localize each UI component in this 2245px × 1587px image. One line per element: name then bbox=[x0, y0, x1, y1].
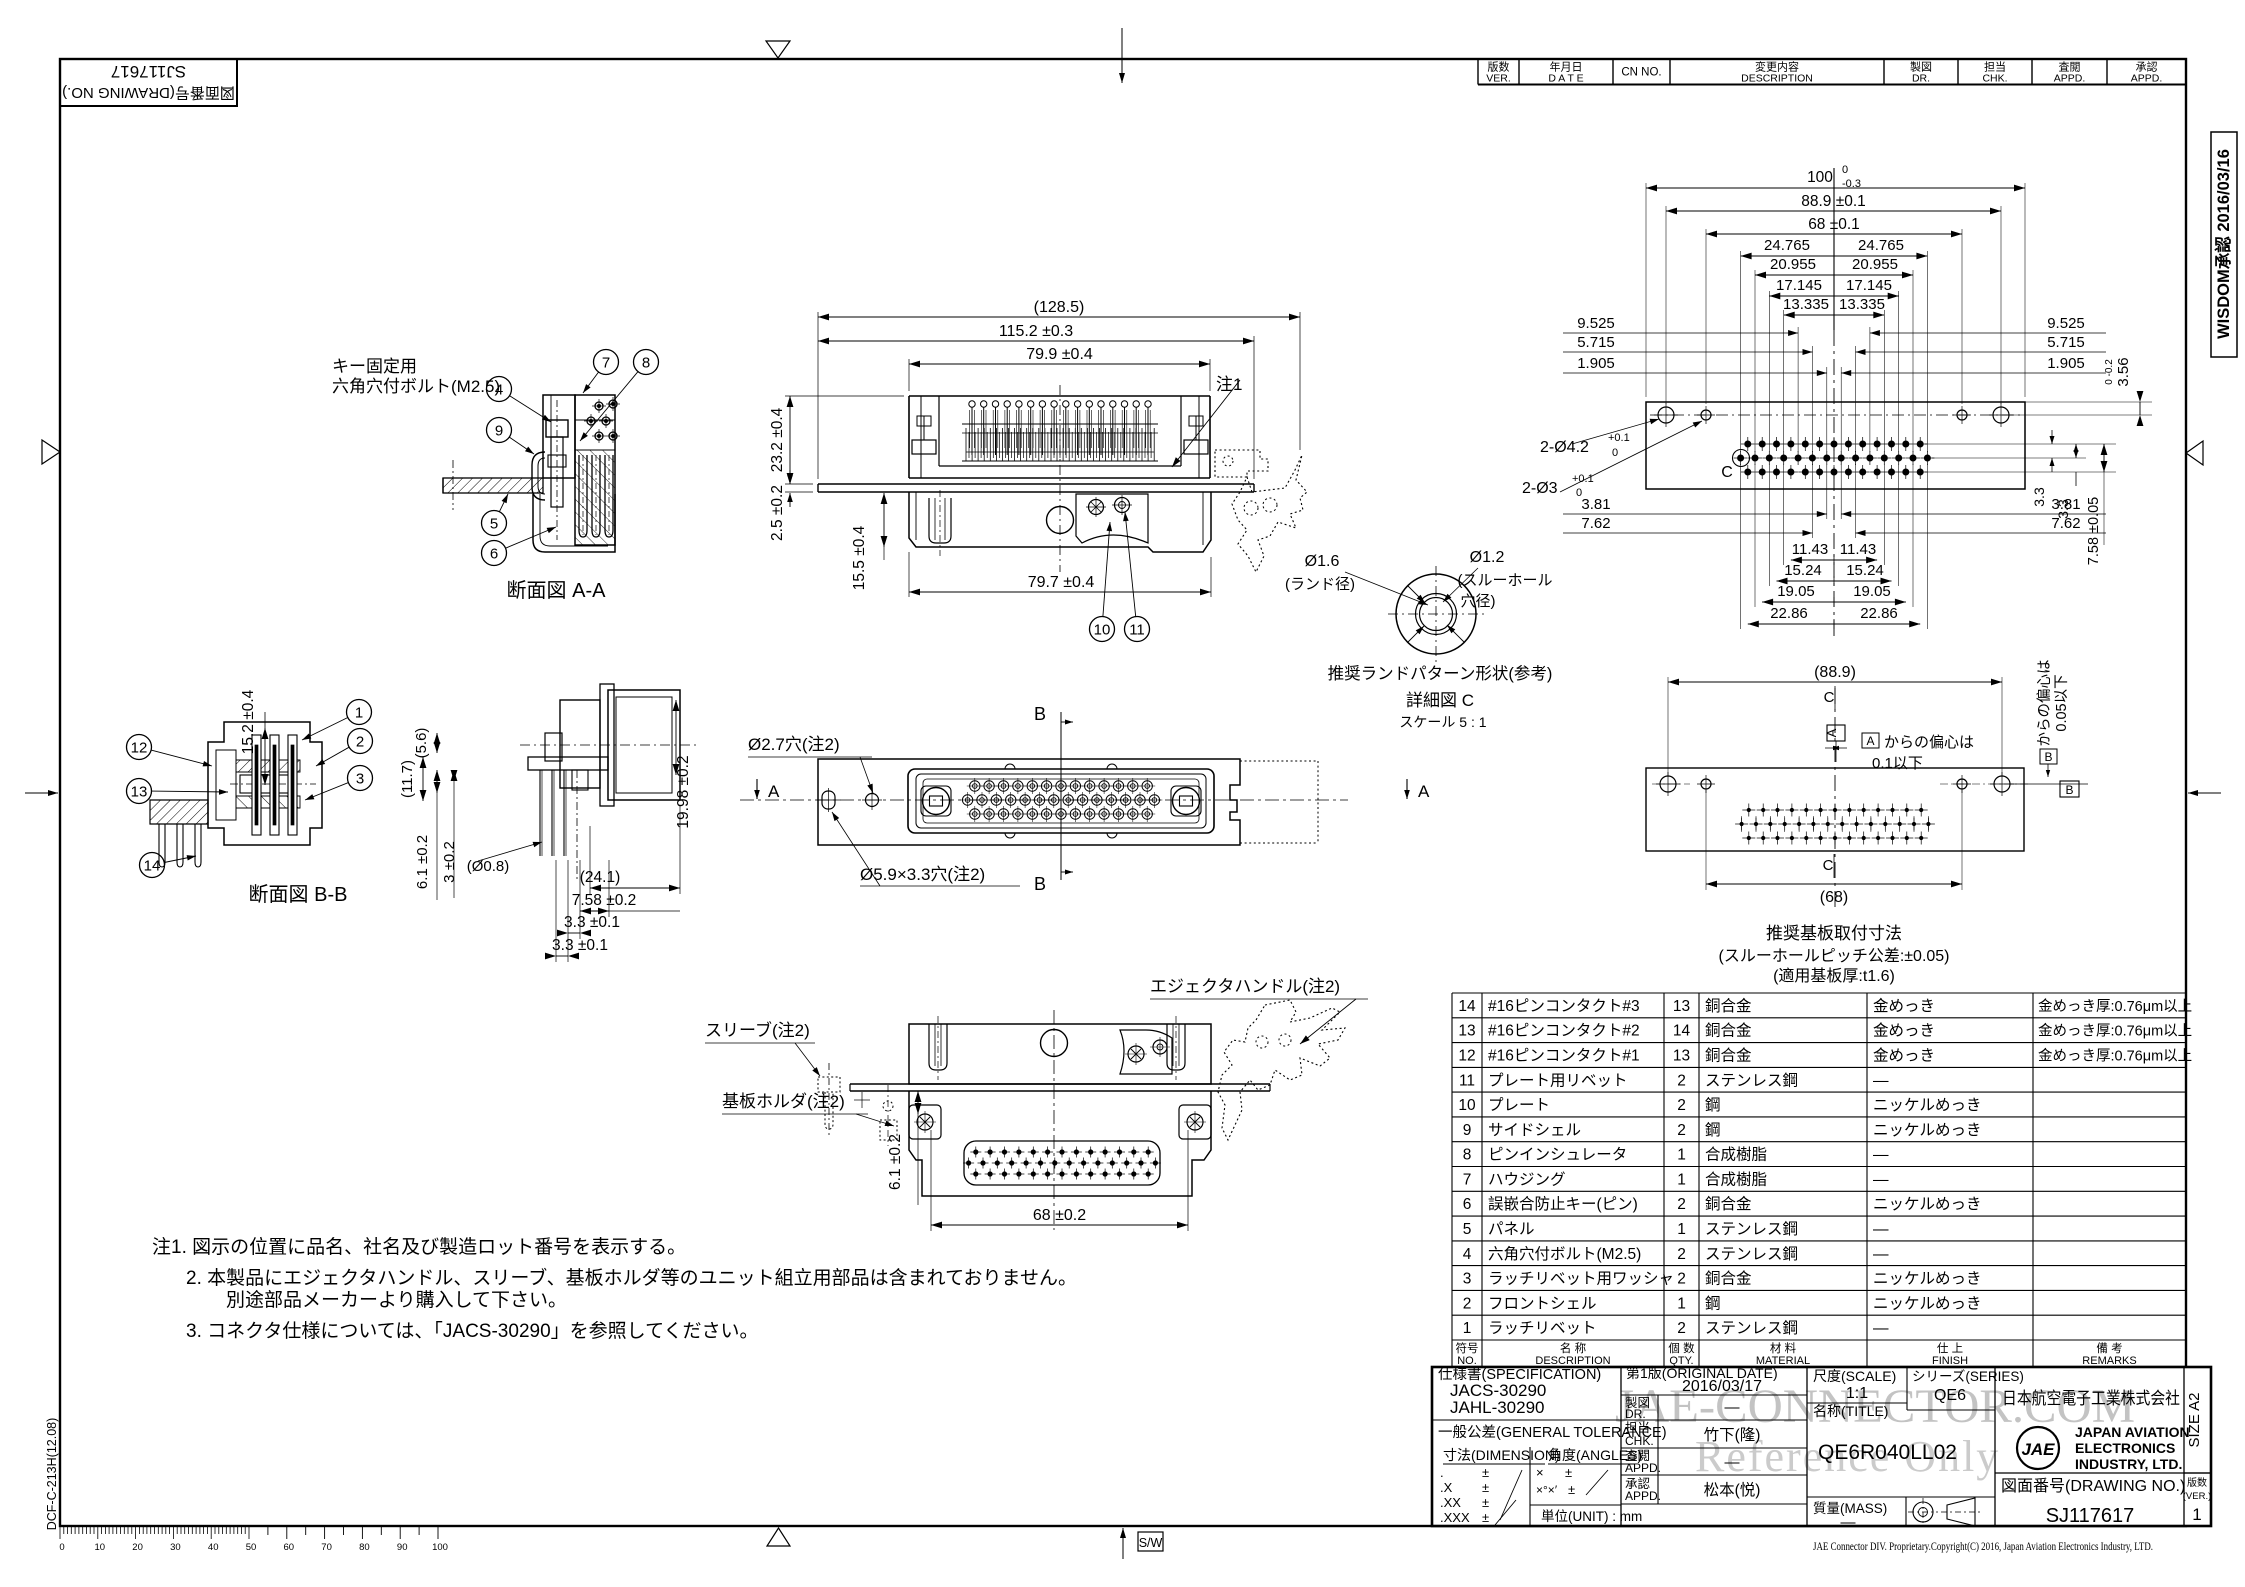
dimension (128.5) bbox=[818, 299, 1300, 479]
svg-text:断面図 B-B: 断面図 B-B bbox=[249, 883, 348, 906]
svg-text:承認: 承認 bbox=[2136, 60, 2158, 74]
svg-text:銅合金: 銅合金 bbox=[1705, 1270, 1752, 1288]
svg-text:1: 1 bbox=[1677, 1147, 1686, 1164]
dimension phi0.8 bbox=[467, 842, 542, 875]
svg-text:1: 1 bbox=[1677, 1171, 1686, 1188]
svg-text:FINISH: FINISH bbox=[1932, 1355, 1968, 1367]
svg-text:竹下(隆): 竹下(隆) bbox=[1704, 1426, 1761, 1444]
board mounting contacts bbox=[1735, 804, 1935, 845]
dimension 23.2 bbox=[769, 396, 904, 484]
svg-text:1.905: 1.905 bbox=[1577, 355, 1615, 372]
svg-text:0 -0.2: 0 -0.2 bbox=[2104, 359, 2115, 385]
svg-text:(スルーホールピッチ公差:±0.05): (スルーホールピッチ公差:±0.05) bbox=[1718, 947, 1949, 965]
svg-text:—: — bbox=[1873, 1246, 1889, 1263]
svg-text:(適用基板厚:t1.6): (適用基板厚:t1.6) bbox=[1773, 967, 1895, 985]
svg-text:2: 2 bbox=[1677, 1271, 1686, 1288]
svg-text:図面番号(DRAWING NO.): 図面番号(DRAWING NO.) bbox=[2001, 1477, 2185, 1495]
svg-text:0: 0 bbox=[1576, 487, 1582, 499]
svg-text:基板ホルダ(注2): 基板ホルダ(注2) bbox=[722, 1092, 845, 1111]
svg-text:JAE: JAE bbox=[2021, 1440, 2055, 1459]
pcb pattern centerline bbox=[1833, 168, 1835, 640]
svg-text:REMARKS: REMARKS bbox=[2082, 1355, 2136, 1367]
plan view panel bbox=[740, 759, 1348, 845]
svg-text:C: C bbox=[1824, 689, 1835, 706]
balloon 9 bbox=[487, 418, 535, 455]
svg-text:30: 30 bbox=[170, 1542, 181, 1553]
svg-text:1: 1 bbox=[355, 705, 363, 722]
section A-A view bbox=[332, 357, 620, 552]
svg-text:ピンインシュレータ: ピンインシュレータ bbox=[1488, 1146, 1627, 1164]
svg-text:JAE Connector DIV. Proprietary: JAE Connector DIV. Proprietary.Copyright… bbox=[1813, 1541, 2153, 1553]
svg-text:VER.: VER. bbox=[1486, 73, 1511, 85]
title block date and approvals bbox=[1625, 1365, 1778, 1503]
datum A annotation bbox=[1862, 733, 1974, 772]
svg-text:注1. 図示の位置に品名、社名及び製造ロット番号を表示する。: 注1. 図示の位置に品名、社名及び製造ロット番号を表示する。 bbox=[152, 1236, 686, 1258]
caption land pattern bbox=[1328, 664, 1553, 730]
svg-text:×: × bbox=[1536, 1465, 1544, 1480]
svg-text:15.24: 15.24 bbox=[1846, 562, 1884, 579]
svg-text:シリーズ(SERIES): シリーズ(SERIES) bbox=[1912, 1369, 2024, 1384]
svg-text:0: 0 bbox=[59, 1542, 64, 1553]
svg-text:±: ± bbox=[1482, 1495, 1489, 1510]
svg-text:変更内容: 変更内容 bbox=[1755, 60, 1799, 74]
dimension 20.955 pair bbox=[1755, 256, 1913, 280]
svg-text:金めっき: 金めっき bbox=[1873, 1022, 1935, 1040]
bottom view PCB bbox=[850, 1084, 1270, 1091]
svg-text:Ø2.7穴(注2): Ø2.7穴(注2) bbox=[748, 735, 840, 754]
svg-text:100: 100 bbox=[1807, 169, 1833, 186]
svg-text:WISDOM承認 2016/03/16: WISDOM承認 2016/03/16 bbox=[2213, 149, 2233, 339]
svg-text:×°×′: ×°×′ bbox=[1536, 1483, 1558, 1497]
svg-text:4: 4 bbox=[495, 382, 503, 399]
svg-text:2: 2 bbox=[356, 734, 364, 751]
svg-text:3.3: 3.3 bbox=[2055, 499, 2071, 519]
registration mark triangle left bbox=[42, 440, 60, 464]
svg-text:備 考: 備 考 bbox=[2096, 1341, 2122, 1355]
svg-text:B: B bbox=[1034, 874, 1046, 894]
svg-text:8: 8 bbox=[1463, 1147, 1472, 1164]
section B-B view bbox=[150, 722, 322, 867]
svg-text:12: 12 bbox=[1458, 1048, 1475, 1065]
svg-text:+0.1: +0.1 bbox=[1572, 473, 1594, 485]
svg-text:5.715: 5.715 bbox=[2047, 334, 2085, 351]
pcb pattern extension lines bbox=[1646, 183, 2025, 629]
dimension (68) mounting bbox=[1706, 790, 1962, 906]
title block tolerance cell bbox=[1438, 1424, 1667, 1525]
svg-text:9: 9 bbox=[495, 423, 503, 440]
svg-text:APPD.: APPD. bbox=[2054, 73, 2086, 85]
dimension 24.765 pair bbox=[1741, 237, 1928, 261]
svg-text:Ø1.6: Ø1.6 bbox=[1305, 553, 1340, 570]
title block drawing number bbox=[2001, 1476, 2211, 1527]
registration arrow left bbox=[25, 790, 58, 796]
svg-text:合成樹脂: 合成樹脂 bbox=[1705, 1146, 1767, 1164]
board mounting panel bbox=[1646, 688, 2024, 908]
svg-text:5: 5 bbox=[1463, 1221, 1472, 1238]
svg-text:断面図 A-A: 断面図 A-A bbox=[507, 579, 607, 602]
svg-text:B: B bbox=[1034, 704, 1046, 724]
svg-text:3.56: 3.56 bbox=[2115, 357, 2132, 386]
svg-text:11: 11 bbox=[1459, 1072, 1475, 1089]
dimension (24.1) bbox=[580, 806, 680, 894]
registration mark triangle top bbox=[766, 41, 790, 58]
scale ruler bottom left bbox=[59, 1526, 448, 1553]
svg-text:(VER.): (VER.) bbox=[2183, 1491, 2212, 1502]
svg-text:3: 3 bbox=[356, 771, 364, 788]
board holder dotted with label bbox=[722, 1085, 897, 1146]
svg-text:80: 80 bbox=[359, 1542, 370, 1553]
section line B-B bbox=[1034, 704, 1073, 894]
svg-text:ハウジング: ハウジング bbox=[1488, 1170, 1566, 1188]
svg-text:20.955: 20.955 bbox=[1770, 256, 1816, 273]
svg-text:詳細図 C: 詳細図 C bbox=[1406, 691, 1474, 710]
dimension 9.525 lines bbox=[1563, 315, 2106, 336]
svg-text:ラッチリベット: ラッチリベット bbox=[1488, 1320, 1597, 1337]
svg-text:からの偏心は: からの偏心は bbox=[2036, 660, 2053, 747]
svg-text:CHK.: CHK. bbox=[1625, 1434, 1654, 1448]
svg-text:B: B bbox=[2044, 750, 2052, 764]
svg-text:1: 1 bbox=[1677, 1295, 1686, 1312]
svg-text:3.3 ±0.1: 3.3 ±0.1 bbox=[552, 937, 608, 954]
svg-text:金めっき厚:0.76μm以上: 金めっき厚:0.76μm以上 bbox=[2038, 998, 2192, 1015]
bottom view lower body bbox=[909, 1091, 1211, 1196]
svg-text:3: 3 bbox=[1463, 1271, 1472, 1288]
label phi1.6 land bbox=[1285, 553, 1428, 605]
revision table header bbox=[1478, 59, 2186, 85]
svg-text:100: 100 bbox=[432, 1542, 448, 1553]
pcb pattern panel bbox=[1646, 402, 2025, 489]
svg-text:0: 0 bbox=[1612, 447, 1618, 459]
svg-text:20.955: 20.955 bbox=[1852, 256, 1898, 273]
svg-text:—: — bbox=[1725, 1454, 1740, 1471]
svg-text:2: 2 bbox=[1677, 1097, 1686, 1114]
svg-text:推奨基板取付寸法: 推奨基板取付寸法 bbox=[1766, 924, 1902, 943]
dimension (5.6) bbox=[413, 728, 440, 759]
svg-text:11.43: 11.43 bbox=[1792, 541, 1828, 558]
svg-text:±: ± bbox=[1482, 1465, 1489, 1480]
svg-text:2. 本製品にエジェクタハンドル、スリーブ、基板ホルダ等のユ: 2. 本製品にエジェクタハンドル、スリーブ、基板ホルダ等のユニット組立用部品は含… bbox=[186, 1266, 1077, 1289]
svg-text:スリーブ(注2): スリーブ(注2) bbox=[705, 1020, 810, 1040]
svg-text:仕 上: 仕 上 bbox=[1937, 1342, 1963, 1355]
svg-text:JAHL-30290: JAHL-30290 bbox=[1450, 1398, 1545, 1417]
svg-text:11: 11 bbox=[1129, 622, 1145, 639]
svg-text:3. コネクタ仕様については、「JACS-30290」を参照: 3. コネクタ仕様については、「JACS-30290」を参照してください。 bbox=[186, 1320, 759, 1342]
svg-text:10: 10 bbox=[1458, 1097, 1476, 1114]
dimension 22.86 pair bbox=[1748, 605, 1920, 629]
plan view dotted extension bbox=[1240, 761, 1318, 843]
label 2-phi3 bbox=[1522, 421, 1702, 499]
svg-text:SIZE A2: SIZE A2 bbox=[2186, 1392, 2203, 1447]
svg-text:6: 6 bbox=[1463, 1196, 1472, 1213]
svg-text:15.5 ±0.4: 15.5 ±0.4 bbox=[851, 525, 868, 590]
svg-text:-0.3: -0.3 bbox=[1842, 178, 1861, 190]
svg-text:穴径): 穴径) bbox=[1461, 593, 1496, 610]
projection symbol bbox=[1908, 1498, 1981, 1526]
caption board mounting bbox=[1718, 924, 1949, 985]
svg-text:+0.1: +0.1 bbox=[1608, 432, 1630, 444]
svg-text:(88.9): (88.9) bbox=[1814, 664, 1856, 681]
svg-text:—: — bbox=[1873, 1221, 1889, 1238]
dimension 68 bbox=[931, 1130, 1188, 1231]
plan view connector body bbox=[908, 764, 1214, 838]
svg-text:ステンレス鋼: ステンレス鋼 bbox=[1705, 1319, 1798, 1337]
balloon 7 bbox=[583, 350, 619, 394]
svg-text:S/W: S/W bbox=[1139, 1536, 1163, 1550]
dimension 3.56 right bbox=[2009, 357, 2152, 426]
svg-text:2: 2 bbox=[1677, 1122, 1686, 1139]
svg-text:材 料: 材 料 bbox=[1770, 1341, 1797, 1355]
section arrow A right bbox=[1404, 779, 1430, 801]
svg-text:図面番号(DRAWING NO.): 図面番号(DRAWING NO.) bbox=[62, 84, 235, 101]
svg-text:金めっき: 金めっき bbox=[1873, 997, 1935, 1015]
svg-text:CHK.: CHK. bbox=[1982, 73, 2007, 85]
JAE logo bbox=[2017, 1427, 2059, 1469]
detail C land pattern bbox=[1388, 566, 1484, 662]
svg-text:3.3: 3.3 bbox=[2031, 487, 2047, 507]
svg-text:名称(TITLE): 名称(TITLE) bbox=[1813, 1403, 1888, 1419]
svg-text:鋼: 鋼 bbox=[1705, 1121, 1721, 1139]
svg-text:7: 7 bbox=[1463, 1171, 1472, 1188]
svg-text:パネル: パネル bbox=[1488, 1220, 1535, 1238]
dimension 19.98 bbox=[673, 700, 692, 829]
svg-text:INDUSTRY, LTD.: INDUSTRY, LTD. bbox=[2075, 1456, 2182, 1472]
section arrow A left bbox=[754, 779, 780, 801]
svg-text:14: 14 bbox=[1458, 998, 1476, 1015]
WISDOM approval stamp (rotated) bbox=[2211, 132, 2237, 357]
svg-text:からの偏心は: からの偏心は bbox=[1884, 734, 1974, 751]
svg-text:APPD.: APPD. bbox=[1625, 1461, 1661, 1475]
svg-text:13: 13 bbox=[1673, 1048, 1690, 1065]
dimension 79.9 bbox=[909, 346, 1210, 391]
svg-text:プレート用リベット: プレート用リベット bbox=[1488, 1071, 1628, 1089]
svg-text:1:1: 1:1 bbox=[1846, 1385, 1868, 1402]
balloon 4 bbox=[487, 377, 552, 423]
svg-text:79.7 ±0.4: 79.7 ±0.4 bbox=[1028, 574, 1095, 591]
title block outer bbox=[1432, 1367, 2211, 1526]
svg-text:2.5 ±0.2: 2.5 ±0.2 bbox=[769, 485, 786, 541]
svg-text:寸法(DIMENSION): 寸法(DIMENSION) bbox=[1443, 1447, 1560, 1463]
svg-text:—: — bbox=[1725, 1399, 1740, 1416]
dimension 5.715 lines bbox=[1563, 334, 2106, 355]
dimension 17.145 pair bbox=[1769, 277, 1898, 301]
svg-text:2: 2 bbox=[1677, 1196, 1686, 1213]
svg-text:QE6: QE6 bbox=[1934, 1387, 1966, 1404]
svg-text:40: 40 bbox=[208, 1542, 219, 1553]
svg-text:15.24: 15.24 bbox=[1784, 562, 1822, 579]
svg-text:尺度(SCALE): 尺度(SCALE) bbox=[1813, 1368, 1896, 1384]
svg-text:SJ117617: SJ117617 bbox=[111, 62, 186, 81]
svg-text:担当: 担当 bbox=[1984, 60, 2006, 74]
svg-text:6.1 ±0.2: 6.1 ±0.2 bbox=[887, 1134, 904, 1190]
svg-text:88.9 ±0.1: 88.9 ±0.1 bbox=[1801, 193, 1866, 210]
svg-text:9: 9 bbox=[1463, 1122, 1472, 1139]
svg-text:ニッケルめっき: ニッケルめっき bbox=[1873, 1270, 1982, 1288]
svg-text:QE6R040LL02: QE6R040LL02 bbox=[1818, 1441, 1957, 1464]
svg-text:版数: 版数 bbox=[1488, 60, 1510, 74]
registration mark triangle bottom bbox=[767, 1528, 790, 1546]
title block spec cell bbox=[1438, 1366, 1601, 1417]
svg-text:名 称: 名 称 bbox=[1560, 1341, 1587, 1355]
balloon 10 bbox=[1090, 522, 1115, 642]
svg-text:14: 14 bbox=[1673, 1023, 1691, 1040]
svg-text:2: 2 bbox=[1463, 1295, 1472, 1312]
svg-text:—: — bbox=[1841, 1514, 1856, 1531]
registration mark triangle right bbox=[2186, 441, 2203, 465]
svg-text:0.1以下: 0.1以下 bbox=[1872, 755, 1923, 772]
dimension 1.905 lines bbox=[1563, 355, 2106, 376]
svg-text:68 ±0.2: 68 ±0.2 bbox=[1033, 1207, 1086, 1224]
svg-text:7.58 ±0.05: 7.58 ±0.05 bbox=[2086, 497, 2102, 565]
svg-text:10: 10 bbox=[95, 1542, 106, 1553]
dimension 3.3 first bbox=[557, 860, 620, 939]
dimension (88.9) mounting bbox=[1668, 664, 2002, 776]
svg-text:日本航空電子工業株式会社: 日本航空電子工業株式会社 bbox=[2002, 1389, 2180, 1408]
svg-text:3.81: 3.81 bbox=[1581, 496, 1610, 513]
svg-text:—: — bbox=[1873, 1072, 1889, 1089]
svg-text:22.86: 22.86 bbox=[1860, 605, 1898, 622]
svg-text:#16ピンコンタクト#1: #16ピンコンタクト#1 bbox=[1488, 1047, 1640, 1065]
svg-text:JAPAN AVIATION: JAPAN AVIATION bbox=[2075, 1424, 2190, 1440]
svg-text:プレート: プレート bbox=[1488, 1096, 1550, 1114]
caption section B-B bbox=[249, 883, 348, 906]
SIZE A2 vertical label bbox=[2186, 1392, 2203, 1447]
svg-text:19.98 ±0.2: 19.98 ±0.2 bbox=[675, 755, 692, 828]
svg-text:0: 0 bbox=[1842, 164, 1848, 176]
svg-text:9.525: 9.525 bbox=[2047, 315, 2085, 332]
svg-text:60: 60 bbox=[284, 1542, 295, 1553]
svg-text:1: 1 bbox=[1677, 1221, 1686, 1238]
svg-text:APPD.: APPD. bbox=[1625, 1489, 1661, 1503]
svg-text:注1: 注1 bbox=[1216, 375, 1242, 394]
svg-text:13: 13 bbox=[131, 784, 148, 801]
centerline symbol bottom bbox=[1823, 854, 1834, 878]
svg-text:APPD.: APPD. bbox=[2131, 73, 2163, 85]
svg-text:3.3 ±0.1: 3.3 ±0.1 bbox=[564, 914, 620, 931]
svg-text:50: 50 bbox=[246, 1542, 257, 1553]
balloon 13 bbox=[127, 779, 229, 804]
svg-text:単位(UNIT) : mm: 単位(UNIT) : mm bbox=[1541, 1509, 1642, 1524]
svg-text:スケール 5 : 1: スケール 5 : 1 bbox=[1399, 714, 1486, 730]
svg-text:.X: .X bbox=[1440, 1480, 1453, 1495]
balloon 14 bbox=[140, 853, 197, 878]
svg-text:ニッケルめっき: ニッケルめっき bbox=[1873, 1096, 1982, 1114]
svg-text:(5.6): (5.6) bbox=[413, 728, 430, 759]
svg-text:鋼: 鋼 bbox=[1705, 1096, 1721, 1114]
svg-text:.XXX: .XXX bbox=[1440, 1510, 1470, 1525]
svg-text:79.9 ±0.4: 79.9 ±0.4 bbox=[1026, 346, 1093, 363]
svg-text:サイドシェル: サイドシェル bbox=[1488, 1122, 1581, 1139]
svg-text:C: C bbox=[1721, 464, 1733, 481]
svg-text:(11.7): (11.7) bbox=[399, 760, 416, 798]
svg-text:14: 14 bbox=[144, 858, 161, 875]
svg-text:±: ± bbox=[1568, 1482, 1575, 1497]
note 1 leader bbox=[1172, 375, 1242, 467]
svg-text:.XX: .XX bbox=[1440, 1495, 1461, 1510]
svg-text:担当: 担当 bbox=[1625, 1421, 1650, 1435]
svg-text:銅合金: 銅合金 bbox=[1705, 1022, 1752, 1040]
svg-text:年月日: 年月日 bbox=[1550, 60, 1583, 74]
dimension 3.3 second bbox=[545, 860, 608, 962]
dimension 100 -0.3 bbox=[1646, 164, 2025, 191]
svg-text:0.05以下: 0.05以下 bbox=[2054, 674, 2070, 731]
dimension 11.43 pair bbox=[1791, 541, 1877, 565]
svg-text:査閲: 査閲 bbox=[2059, 60, 2081, 74]
title block scale series title mass bbox=[1813, 1368, 2024, 1531]
svg-text:ステンレス鋼: ステンレス鋼 bbox=[1705, 1220, 1798, 1238]
svg-text:D A T E: D A T E bbox=[1548, 73, 1583, 85]
svg-text:CN NO.: CN NO. bbox=[1621, 67, 1661, 79]
side view of connector bbox=[520, 684, 700, 880]
svg-text:2-Ø3: 2-Ø3 bbox=[1522, 480, 1558, 497]
parts list table bbox=[1452, 993, 2192, 1367]
PCB plate front view bbox=[818, 484, 1254, 492]
svg-text:5.715: 5.715 bbox=[1577, 334, 1615, 351]
svg-text:2: 2 bbox=[1677, 1072, 1686, 1089]
svg-text:19.05: 19.05 bbox=[1777, 583, 1815, 600]
svg-text:—: — bbox=[1873, 1171, 1889, 1188]
svg-text:(128.5): (128.5) bbox=[1034, 299, 1085, 316]
svg-text:推奨ランドパターン形状(参考): 推奨ランドパターン形状(参考) bbox=[1328, 664, 1553, 683]
svg-text:.: . bbox=[1440, 1465, 1444, 1480]
svg-text:24.765: 24.765 bbox=[1858, 237, 1904, 254]
svg-text:A: A bbox=[1866, 734, 1874, 748]
svg-text:銅合金: 銅合金 bbox=[1705, 997, 1752, 1015]
centerline symbol top bbox=[1824, 686, 1835, 710]
datum A box bbox=[1824, 725, 1847, 762]
dimension 13.335 pair bbox=[1783, 296, 1885, 320]
balloon 1 bbox=[302, 700, 372, 741]
svg-text:10: 10 bbox=[1094, 622, 1111, 639]
svg-text:2016/03/17: 2016/03/17 bbox=[1682, 1378, 1762, 1395]
dimension 79.7 bbox=[909, 552, 1211, 597]
svg-text:±: ± bbox=[1482, 1510, 1489, 1525]
balloon 2 bbox=[316, 729, 373, 767]
svg-text:4: 4 bbox=[1463, 1246, 1472, 1263]
svg-text:ニッケルめっき: ニッケルめっき bbox=[1873, 1195, 1982, 1213]
svg-text:—: — bbox=[1873, 1147, 1889, 1164]
svg-text:1: 1 bbox=[2192, 1505, 2201, 1524]
front view lower housing bbox=[909, 490, 1211, 556]
svg-text:ラッチリベット用ワッシャ: ラッチリベット用ワッシャ bbox=[1488, 1271, 1674, 1288]
svg-text:C: C bbox=[1823, 857, 1834, 874]
slot hole with label bbox=[817, 788, 1021, 886]
svg-text:12: 12 bbox=[131, 740, 148, 757]
dimension 7.58 bbox=[572, 860, 680, 917]
caption section A-A bbox=[507, 579, 607, 602]
dimension 3.81 lines bbox=[1563, 496, 2106, 517]
svg-text:ニッケルめっき: ニッケルめっき bbox=[1873, 1294, 1982, 1312]
pcb pattern contact holes bbox=[1721, 437, 1934, 481]
dimension 19.05 pair bbox=[1762, 583, 1906, 607]
svg-text:13: 13 bbox=[1458, 1023, 1475, 1040]
svg-text:合成樹脂: 合成樹脂 bbox=[1705, 1170, 1767, 1188]
svg-text:70: 70 bbox=[321, 1542, 332, 1553]
svg-text:Ø1.2: Ø1.2 bbox=[1470, 549, 1505, 566]
svg-text:17.145: 17.145 bbox=[1846, 277, 1892, 294]
balloon 3 bbox=[305, 766, 373, 801]
balloon 8 bbox=[580, 350, 659, 442]
svg-text:7.62: 7.62 bbox=[1581, 515, 1610, 532]
svg-text:NO.: NO. bbox=[1457, 1355, 1477, 1367]
svg-text:製図: 製図 bbox=[1910, 60, 1932, 74]
front view connector body bbox=[909, 385, 1210, 572]
svg-text:版数: 版数 bbox=[2187, 1476, 2207, 1489]
svg-text:ニッケルめっき: ニッケルめっき bbox=[1873, 1121, 1982, 1139]
balloon 6 bbox=[482, 527, 557, 566]
svg-text:符号: 符号 bbox=[1456, 1341, 1479, 1355]
svg-text:DESCRIPTION: DESCRIPTION bbox=[1535, 1355, 1610, 1367]
svg-text:13.335: 13.335 bbox=[1839, 296, 1885, 313]
